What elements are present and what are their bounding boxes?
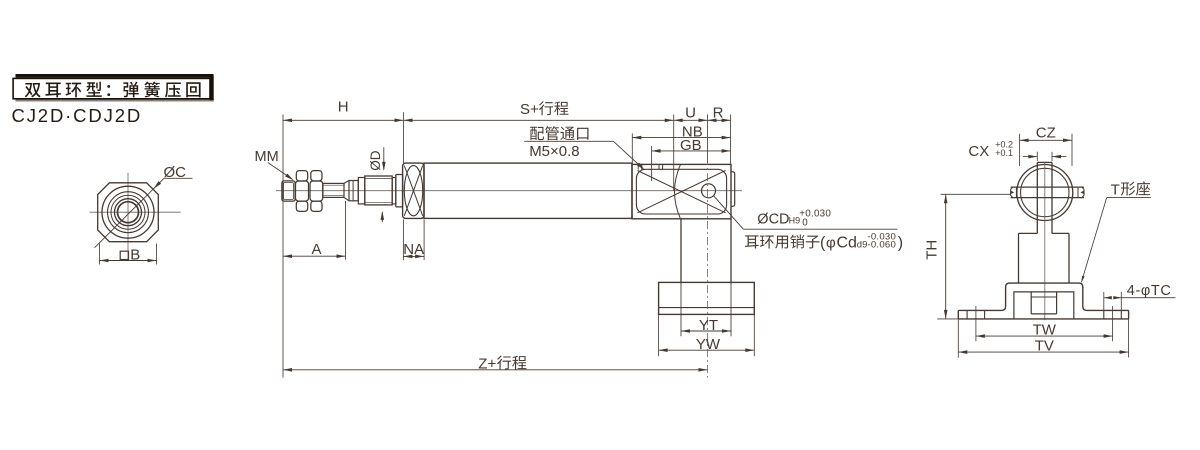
svg-text:TW: TW [1033,322,1057,339]
svg-text:0: 0 [802,218,808,229]
svg-text:Cd: Cd [837,234,857,251]
svg-text:CX: CX [968,143,989,160]
svg-text:A: A [311,241,321,258]
svg-text:ØD: ØD [368,150,383,171]
svg-text:MM: MM [255,149,279,165]
svg-text:d9: d9 [857,239,868,250]
svg-text:YW: YW [696,336,721,353]
svg-text:TV: TV [1035,338,1054,355]
svg-text:U: U [685,104,696,121]
svg-text:YT: YT [699,317,718,334]
svg-text:B: B [130,247,140,264]
svg-text:GB: GB [680,137,702,154]
svg-text:NA: NA [403,241,424,258]
svg-text:φ: φ [826,234,836,251]
svg-text:4-φTC: 4-φTC [1127,283,1172,299]
svg-text:CJ2D·CDJ2D: CJ2D·CDJ2D [12,105,143,126]
svg-text:ØC: ØC [164,164,187,181]
svg-text:CZ: CZ [1036,125,1056,142]
svg-text:Z+: Z+ [478,355,496,372]
svg-text:): ) [898,234,903,251]
svg-text:-0.060: -0.060 [867,239,896,250]
svg-text:ØCD: ØCD [757,211,789,227]
svg-text:T: T [1111,181,1120,198]
svg-text:+0.1: +0.1 [995,148,1013,158]
svg-text:S+: S+ [520,101,539,118]
svg-text:TH: TH [923,240,940,260]
svg-text:R: R [713,104,724,121]
svg-text:M5×0.8: M5×0.8 [529,143,579,160]
svg-text:H: H [338,99,349,116]
